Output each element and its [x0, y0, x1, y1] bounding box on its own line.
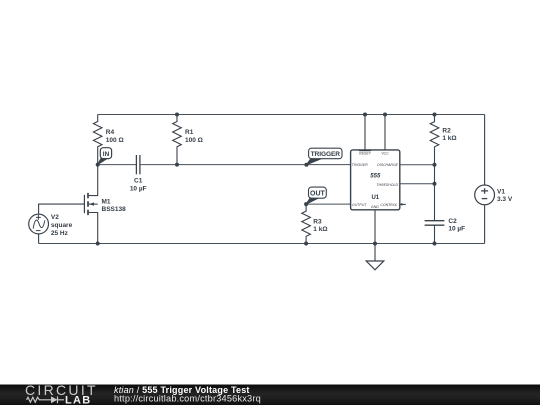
svg-text:http://circuitlab.com/ctbr3456: http://circuitlab.com/ctbr3456kx3rq — [114, 394, 261, 404]
junction GND rail — [373, 242, 377, 246]
svg-text:M1: M1 — [102, 198, 111, 205]
pin VCC stub — [384, 115, 386, 150]
svg-text:TRIGGER: TRIGGER — [352, 163, 368, 167]
wire bottom rail — [39, 243, 485, 245]
label V2 value — [51, 214, 73, 237]
junction threshold R2 — [433, 182, 437, 186]
svg-text:THRESHOLD: THRESHOLD — [376, 183, 398, 187]
svg-text:C2: C2 — [448, 218, 457, 225]
svg-text:10 µF: 10 µF — [448, 226, 465, 233]
wire V1 top lead — [484, 115, 486, 186]
resistor R2 — [430, 115, 439, 153]
wire R2 to C2 — [434, 152, 436, 221]
wire V1 bottom lead — [484, 205, 486, 244]
flag OUT — [306, 187, 326, 204]
resistor R4 — [93, 115, 102, 165]
junction RESET top — [363, 113, 367, 117]
pin CONTROL stub — [400, 203, 406, 205]
junction R3 bottom — [304, 242, 308, 246]
svg-text:DISCHARGE: DISCHARGE — [377, 163, 398, 167]
resistor R3 — [302, 204, 311, 243]
svg-text:C1: C1 — [134, 178, 143, 185]
svg-text:R3: R3 — [313, 218, 322, 225]
svg-text:1 kΩ: 1 kΩ — [313, 226, 327, 233]
label V1 value — [497, 188, 513, 203]
svg-text:1 kΩ: 1 kΩ — [442, 135, 456, 142]
junction discharge R2 — [433, 163, 437, 167]
svg-text:100 Ω: 100 Ω — [185, 137, 203, 144]
junction R2 top — [433, 113, 437, 117]
svg-text:3.3 V: 3.3 V — [497, 196, 513, 203]
ground — [366, 261, 384, 270]
body lead — [89, 203, 98, 205]
channel bars — [87, 193, 89, 215]
svg-text:25 Hz: 25 Hz — [51, 230, 69, 237]
svg-text:square: square — [51, 222, 73, 229]
label R4 value — [106, 129, 124, 144]
footer logo resistor-diode glyph — [27, 396, 65, 403]
svg-text:IN: IN — [103, 151, 110, 158]
source lead — [89, 213, 98, 244]
wire mid left (IN node to C1) — [98, 164, 137, 166]
junction OUT node — [304, 202, 308, 206]
label C1 value — [130, 178, 147, 193]
svg-text:U1: U1 — [371, 195, 379, 201]
flag TRIGGER — [304, 148, 342, 167]
svg-text:GND: GND — [371, 205, 379, 209]
svg-text:V2: V2 — [51, 214, 59, 221]
svg-text:R1: R1 — [185, 129, 194, 136]
junction IN node — [96, 163, 100, 167]
gate bar — [83, 195, 85, 213]
flag IN — [98, 148, 112, 165]
label R3 value — [313, 218, 327, 233]
pin RESET stub — [364, 115, 366, 150]
label R1 value — [185, 129, 203, 144]
label M1 value — [102, 198, 127, 213]
wire C2 bottom lead — [434, 225, 436, 243]
wire mid right (C1 to 555 TRIGGER pin) — [140, 164, 351, 166]
junction C2 bottom — [433, 242, 437, 246]
svg-text:V1: V1 — [497, 188, 505, 195]
drain lead — [89, 165, 98, 196]
pin label RESET — [359, 151, 372, 156]
capacitor C2 — [425, 221, 445, 226]
svg-text:RESET: RESET — [359, 151, 372, 155]
capacitor C1 — [136, 155, 140, 174]
resistor R1 — [173, 115, 182, 165]
junction VCC top — [383, 113, 387, 117]
svg-text:BSS138: BSS138 — [102, 206, 127, 213]
junction M1 source bottom — [96, 242, 100, 246]
wire V2 bottom lead — [38, 234, 40, 244]
label R2 value — [442, 127, 456, 142]
svg-text:TRIGGER: TRIGGER — [311, 151, 341, 158]
op IC U1 555 box — [351, 150, 400, 210]
footer bar — [0, 385, 540, 405]
junction R1 top — [175, 113, 179, 117]
source V1 — [475, 185, 495, 205]
svg-text:100 Ω: 100 Ω — [106, 137, 124, 144]
svg-text:OUTPUT: OUTPUT — [352, 203, 367, 207]
junction R1 bottom — [175, 163, 179, 167]
wire THRESHOLD — [400, 183, 435, 185]
source V2 — [29, 214, 49, 234]
label C2 value — [448, 218, 465, 233]
wire V2 gate link — [39, 204, 85, 214]
svg-text:OUT: OUT — [310, 190, 326, 197]
transistor M1 (NMOS BSS138) — [84, 165, 97, 244]
svg-text:R4: R4 — [106, 129, 115, 136]
wire GND lead — [374, 210, 376, 261]
svg-text:CONTROL: CONTROL — [380, 203, 397, 207]
svg-text:555: 555 — [370, 174, 381, 180]
wire top rail — [98, 114, 485, 116]
svg-text:10 µF: 10 µF — [130, 185, 147, 192]
wire OUTPUT (node to 555) — [306, 203, 351, 205]
junction TRIGGER node — [304, 163, 308, 167]
body arrow — [89, 202, 94, 205]
svg-text:LAB: LAB — [65, 394, 92, 405]
svg-text:R2: R2 — [442, 127, 451, 134]
svg-text:VCC: VCC — [381, 152, 389, 156]
wire DISCHARGE — [400, 164, 435, 166]
